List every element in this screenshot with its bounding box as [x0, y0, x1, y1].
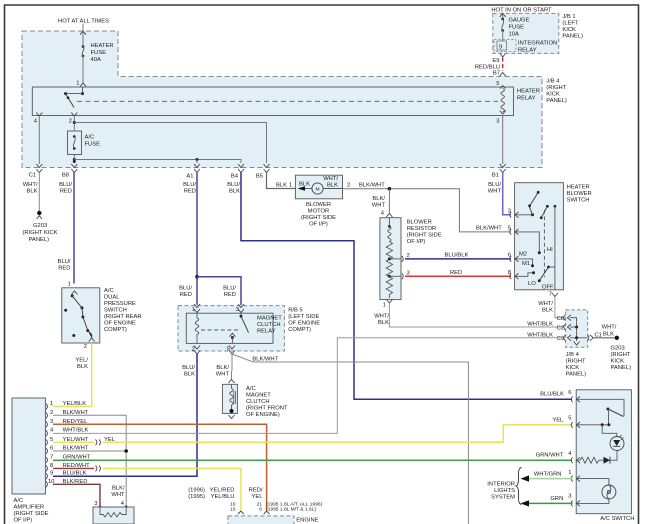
svg-text:A/C SWITCH: A/C SWITCH: [600, 516, 634, 522]
label BLU/BLK under B4: [227, 182, 240, 195]
relay pin 2 connector: [192, 346, 200, 355]
svg-text:BLK: BLK: [77, 364, 88, 370]
svg-text:OF ENGINE: OF ENGINE: [104, 321, 136, 327]
wire BLK/WHT drop to blower resistor pin 4: [388, 189, 390, 213]
svg-text:(RIGHT SIDE: (RIGHT SIDE: [14, 511, 49, 517]
wire BLU/RED B8 to A/C dual pressure switch: [73, 173, 75, 284]
label BLU/RED above pressure switch: [58, 259, 71, 272]
resistor pin 3 branch: [389, 271, 409, 280]
wire relay terminal 4 to C1: [38, 116, 40, 164]
svg-text:RELAY: RELAY: [517, 96, 536, 102]
svg-text:WHT/GRN: WHT/GRN: [534, 472, 562, 478]
label J/B 1 (LEFT KICK PANEL): [562, 14, 583, 40]
svg-text:FUSE: FUSE: [91, 50, 107, 56]
svg-text:3: 3: [94, 501, 97, 507]
label WHT/BLK at C1: [602, 325, 617, 338]
svg-text:HEATER: HEATER: [517, 89, 540, 95]
amplifier pin 4: [46, 428, 88, 436]
svg-text:KICK: KICK: [566, 365, 580, 371]
wire BLU/WHT B1 to blower switch pin 3: [503, 173, 511, 215]
svg-text:YEL/: YEL/: [75, 358, 88, 364]
svg-text:R/B 5: R/B 5: [288, 308, 303, 314]
svg-text:WHT/: WHT/: [374, 314, 389, 320]
svg-text:1: 1: [568, 470, 571, 476]
connector arrow into J/B at HOT AT ALL TIMES: [80, 31, 86, 35]
engine control module box: [228, 516, 294, 524]
svg-text:COMPT): COMPT): [288, 327, 311, 333]
svg-text:LIGHTS: LIGHTS: [494, 488, 515, 494]
blower motor internals (arrow, M circle): [298, 176, 343, 194]
C8 entry: [557, 315, 571, 322]
svg-text:10A: 10A: [509, 32, 519, 38]
blower motor box: [295, 175, 342, 199]
svg-text:1: 1: [289, 183, 292, 189]
amplifier pin 7: [46, 455, 91, 463]
blower switch OFF contact and arm: [538, 266, 555, 291]
wire BLK/WHT relay pin5 down to magnet clutch: [231, 354, 234, 380]
svg-text:(RIGHT: (RIGHT: [546, 85, 566, 91]
amplifier pin 2: [46, 410, 89, 418]
svg-text:BLU/: BLU/: [182, 365, 195, 371]
svg-text:YEL/BLU: YEL/BLU: [211, 494, 235, 500]
svg-text:RED: RED: [450, 270, 462, 276]
relay switch: [229, 313, 248, 343]
svg-text:BLK/: BLK/: [216, 365, 229, 371]
svg-text:BLK/WHT: BLK/WHT: [476, 226, 502, 232]
wire BLU/BLK resistor pin 2 to switch pin 6: [405, 258, 511, 260]
svg-text:RED: RED: [60, 189, 72, 195]
svg-text:40A: 40A: [91, 57, 101, 63]
thermistor box: [93, 507, 134, 524]
A/C switch pin 6 connector: [568, 390, 580, 402]
svg-text:RELAY: RELAY: [518, 48, 537, 54]
wire YEL continues: [103, 425, 573, 442]
svg-text:OF I/P): OF I/P): [14, 518, 33, 524]
svg-text:RED: RED: [184, 189, 196, 195]
label A/C MAGNET CLUTCH (RIGHT FRONT OF ENGINE): [246, 386, 288, 418]
svg-text:OFF: OFF: [542, 285, 554, 291]
svg-text:BLU/: BLU/: [488, 182, 501, 188]
label BLK/WHT above thermistor: [111, 486, 125, 499]
connector B4 at band bottom: [231, 164, 244, 180]
connector B1 at band bottom: [492, 164, 506, 179]
svg-text:BLU/: BLU/: [183, 182, 196, 188]
svg-text:CLUTCH: CLUTCH: [257, 322, 281, 328]
svg-text:(RIGHT SIDE: (RIGHT SIDE: [407, 233, 442, 239]
heater relay coil: [496, 81, 505, 125]
svg-text:WHT: WHT: [488, 189, 502, 195]
label BLU/WHT under B1: [488, 182, 502, 195]
thermistor element: [100, 507, 126, 517]
integration relay (dashed) with pin 9: [494, 40, 557, 54]
svg-text:BLK: BLK: [542, 308, 553, 314]
svg-text:BLOWER: BLOWER: [567, 191, 592, 197]
svg-text:(RIGHT FRONT: (RIGHT FRONT: [246, 406, 288, 412]
relay mech dashed link: [201, 329, 238, 331]
svg-text:OF I/P): OF I/P): [309, 222, 328, 228]
amplifier pin 9: [46, 471, 87, 479]
svg-text:DUAL: DUAL: [104, 295, 120, 301]
connector A1 at band bottom: [186, 164, 200, 180]
wire gauge fuse to integration relay: [502, 31, 504, 42]
svg-text:HEATER: HEATER: [91, 43, 114, 49]
fuse GAUGE FUSE 10A: [501, 18, 529, 38]
svg-text:(RIGHT: (RIGHT: [611, 352, 631, 358]
svg-text:FUSE: FUSE: [509, 25, 525, 31]
svg-text:9: 9: [50, 471, 53, 477]
wire pin3 RED/YEL to ECM: [53, 424, 267, 510]
svg-text:(1995): (1995): [188, 494, 205, 500]
blower switch pin 7 output: [549, 267, 558, 298]
svg-text:BLU/: BLU/: [58, 259, 71, 265]
svg-text:(RIGHT KICK: (RIGHT KICK: [23, 230, 58, 236]
svg-text:HOT IN ON OR START: HOT IN ON OR START: [491, 8, 552, 14]
svg-text:2: 2: [69, 119, 72, 125]
label ENGINE CONTROL: [296, 518, 325, 524]
svg-text:KICK: KICK: [546, 92, 560, 98]
blower switch pin 8 connector: [508, 270, 519, 279]
amplifier pin 8: [46, 463, 90, 471]
svg-text:A/C: A/C: [85, 135, 95, 141]
wire WHT/BLK to ground G203: [592, 337, 615, 339]
svg-text:SYSTEM: SYSTEM: [491, 495, 515, 501]
svg-text:KICK: KICK: [611, 359, 625, 365]
wire BLK from B5 to blower motor pin 1: [267, 173, 296, 189]
svg-text:8: 8: [50, 463, 53, 469]
svg-text:PRESSURE: PRESSURE: [104, 301, 136, 307]
svg-text:J/B 1: J/B 1: [562, 14, 575, 20]
wire pin2 BLK/WHT to thermistor pin 4: [53, 415, 126, 505]
svg-text:B7: B7: [493, 71, 500, 77]
svg-text:WHT/BLK: WHT/BLK: [63, 428, 89, 434]
svg-text:WHT/: WHT/: [23, 182, 38, 188]
inline connector on pin 8 wire: [96, 466, 101, 472]
svg-text:2: 2: [50, 410, 53, 416]
svg-text:8: 8: [508, 270, 511, 276]
svg-text:B8: B8: [62, 173, 69, 179]
svg-text:B4: B4: [231, 174, 239, 180]
blower switch pin 6 connector: [508, 253, 519, 262]
svg-text:YEL/BLK: YEL/BLK: [63, 401, 87, 407]
svg-text:BLU/BLK: BLU/BLK: [540, 392, 564, 398]
svg-text:C8: C8: [557, 316, 564, 322]
svg-text:BLK: BLK: [327, 183, 338, 189]
svg-text:HEATER: HEATER: [567, 185, 590, 191]
svg-text:BLU/: BLU/: [223, 286, 236, 292]
C9 entry: [557, 335, 571, 342]
svg-text:1: 1: [68, 282, 71, 288]
relay terminal 4: [34, 113, 43, 125]
A/C switch pin 5 connector: [568, 416, 580, 428]
wire WHT/BLK pin7 to J/B4 C8: [555, 297, 563, 318]
label A/C DUAL PRESSURE SWITCH (RIGHT REAR OF ENGINE COMPT): [104, 288, 142, 333]
svg-text:SWITCH: SWITCH: [104, 308, 127, 314]
svg-text:PANEL): PANEL): [566, 372, 587, 378]
A/C magnet clutch box: [222, 384, 237, 413]
svg-text:PANEL): PANEL): [29, 237, 50, 243]
wire BLK/WHT from motor to junction and blower switch pin 5: [343, 189, 512, 232]
svg-text:BLK/: BLK/: [112, 486, 125, 492]
connector pin 4 blower resistor: [381, 211, 393, 218]
label RED/YEL at ECM: [249, 488, 264, 501]
svg-text:A1: A1: [186, 174, 193, 180]
wire fuse to relay terminal 1: [82, 56, 84, 83]
svg-text:COMPT): COMPT): [104, 327, 127, 333]
wire pin6 BLK/WHT join: [53, 450, 126, 452]
svg-text:BLK: BLK: [229, 189, 240, 195]
connector pin 1 blower resistor bottom: [383, 300, 393, 309]
J/B 4 connector box (right mid): [566, 310, 588, 347]
A/C switch pin 3 connector: [568, 494, 580, 507]
svg-text:OF I/P): OF I/P): [407, 239, 426, 245]
connector arrow into J/B 1: [500, 13, 506, 17]
svg-text:BLK: BLK: [276, 183, 287, 189]
svg-text:A/C: A/C: [246, 386, 256, 392]
wire BLU/BLK B4 to A/C switch pin 6: [241, 173, 572, 400]
wire terminal 2 down with junction to B5 feed: [73, 116, 75, 131]
svg-text:RELAY: RELAY: [257, 329, 276, 335]
svg-text:WHT/: WHT/: [323, 176, 338, 182]
svg-text:GRN: GRN: [550, 496, 563, 502]
label MAGNET CLUTCH RELAY: [257, 316, 282, 335]
label YEL/RED / YEL/BLU: [210, 488, 235, 501]
connector C1 at band bottom: [29, 164, 43, 179]
svg-text:BLK: BLK: [299, 182, 310, 188]
wire RED resistor pin 3 to switch pin 8: [405, 275, 511, 277]
blower switch HI feed line: [547, 205, 556, 267]
connector B7 into J/B 4: [493, 71, 506, 77]
svg-text:WHT/: WHT/: [602, 325, 617, 331]
svg-text:5: 5: [50, 437, 53, 443]
svg-text:10: 10: [230, 507, 236, 513]
label WHT/BLK under C1: [23, 182, 38, 195]
relay terminal 2: [69, 113, 78, 125]
blower switch pin 5 connector: [508, 226, 519, 235]
svg-text:(1996): (1996): [188, 488, 205, 494]
ECM pin labels 21/6: [257, 502, 263, 513]
A/C switch internal: resistor and diode: [578, 457, 617, 464]
svg-text:C9: C9: [557, 336, 564, 342]
blower resistor box: [380, 218, 401, 300]
wire BLU/RED branch to relay pin 3: [197, 277, 241, 305]
svg-text:GAUGE: GAUGE: [509, 18, 530, 24]
A/C switch internal: pin5 wire, LED branch: [577, 423, 624, 460]
svg-text:M1: M1: [522, 261, 530, 267]
label HEATER BLOWER SWITCH: [567, 185, 592, 204]
svg-text:MOTOR: MOTOR: [308, 209, 329, 215]
J/B 1 box (left kick panel): [493, 13, 559, 53]
magnet clutch coil: [229, 384, 236, 418]
amplifier pin 10: [46, 479, 87, 487]
svg-text:RED: RED: [224, 292, 236, 298]
svg-text:SWITCH: SWITCH: [567, 198, 590, 204]
connector terminal 1 on relay box: [76, 81, 86, 87]
svg-text:RED/: RED/: [249, 488, 263, 494]
R/B 5 box (magnet clutch relay): [178, 306, 284, 351]
ground G203: [23, 211, 58, 243]
svg-text:PANEL): PANEL): [562, 34, 583, 40]
svg-text:1: 1: [50, 401, 53, 407]
svg-text:9: 9: [499, 45, 502, 51]
svg-text:2: 2: [347, 183, 350, 189]
thermistor pin 4 connector: [121, 501, 129, 509]
A/C switch internal: pin3 to lamp: [577, 499, 609, 503]
connector B5 at band bottom: [256, 164, 270, 180]
label INTERIOR LIGHTS SYSTEM with brace: [487, 482, 515, 501]
relay pin 1 connector: [192, 304, 200, 313]
svg-text:3: 3: [50, 419, 53, 425]
wire from HOT IN ON OR START to gauge fuse: [502, 13, 504, 19]
pressure switch internals: [64, 291, 95, 342]
heater blower switch box: [515, 183, 564, 290]
wire WHT/BLK C1 to ground: [38, 173, 40, 212]
wire YEL/BLK pressure switch to amplifier pin 1: [53, 343, 92, 407]
brace for interior lights: [516, 468, 522, 505]
svg-text:INTEGRATION: INTEGRATION: [518, 41, 557, 47]
svg-text:GRN/WHT: GRN/WHT: [536, 453, 564, 459]
svg-text:J/B 4: J/B 4: [566, 352, 580, 358]
svg-text:YEL: YEL: [252, 494, 264, 500]
label (1996)/(1995): [188, 488, 205, 501]
svg-text:M2: M2: [519, 252, 527, 258]
svg-text:OF ENGINE: OF ENGINE: [288, 321, 320, 327]
blower switch rotary contacts top: [516, 191, 549, 219]
wire relay pin 3 to B1: [502, 116, 504, 165]
wire GRN to interior lights (arrow): [521, 500, 573, 506]
blower switch pin 3 connector: [508, 209, 519, 218]
connector B8 at band bottom: [62, 160, 77, 179]
wire RED/BLU from E9 to B7: [502, 58, 504, 72]
svg-text:3: 3: [496, 119, 499, 125]
wire to B5 (BLK): [74, 123, 266, 164]
label BLU/RED above relay pin 1: [179, 286, 192, 299]
inline connector on pin 5 wire: [96, 437, 116, 446]
svg-text:WHT/BLK: WHT/BLK: [527, 322, 553, 328]
svg-text:BLOWER: BLOWER: [407, 220, 432, 226]
relay coil: [195, 313, 199, 343]
svg-text:ENGINE: ENGINE: [296, 518, 318, 524]
svg-text:E9: E9: [492, 58, 499, 64]
label WHT/BLK at pin 7: [538, 301, 553, 314]
node junction on BLK/WHT: [388, 187, 392, 191]
svg-text:BLK/WHT: BLK/WHT: [252, 357, 278, 363]
connector into A/C magnet clutch: [229, 380, 235, 384]
thermistor pin 3 connector: [94, 501, 103, 509]
wire WHT/GRN to interior lights (arrow): [521, 475, 573, 481]
label BLOWER MOTOR (RIGHT SIDE OF I/P): [301, 202, 336, 228]
wire pin8 to LO contact: [516, 271, 537, 287]
svg-text:3: 3: [568, 494, 571, 500]
wire BLU/BLK relay pin2 to amplifier pin 9: [53, 354, 197, 476]
label J/B 4 (RIGHT KICK PANEL) below connector box: [566, 352, 587, 378]
svg-text:KICK: KICK: [562, 27, 576, 33]
svg-text:G203: G203: [611, 346, 625, 352]
label HEATER RELAY: [517, 89, 540, 102]
svg-text:(1995 1.8L M/T & 1.6L): (1995 1.8L M/T & 1.6L): [266, 507, 316, 513]
node on A1 wire: [195, 275, 199, 279]
node pins 2/6 junction: [124, 449, 128, 453]
amplifier pin 6: [46, 446, 89, 454]
svg-text:BLOWER: BLOWER: [306, 202, 331, 208]
svg-text:(RIGHT: (RIGHT: [566, 359, 586, 365]
amplifier pin 3: [46, 419, 88, 427]
wire BLU/RED A1 down to junction node: [196, 173, 198, 306]
svg-text:5: 5: [568, 416, 571, 422]
J/B4 internal bus: [570, 318, 588, 345]
amplifier pin 1: [46, 401, 86, 409]
svg-text:YEL: YEL: [552, 418, 564, 424]
svg-text:5: 5: [508, 226, 511, 232]
svg-text:2: 2: [407, 253, 410, 259]
svg-text:YEL/RED: YEL/RED: [210, 488, 235, 494]
svg-text:OF ENGINE): OF ENGINE): [246, 412, 280, 418]
A/C switch pin 4 connector: [568, 451, 580, 463]
ECM pin labels 10/10: [230, 502, 236, 513]
wire from HOT AT ALL TIMES to heater fuse: [82, 24, 84, 46]
svg-text:6: 6: [259, 507, 262, 513]
wire pin8 RED/WHT to inline connector: [53, 467, 94, 469]
blower switch ganged dashed link: [543, 210, 545, 278]
C2 entry: [557, 324, 571, 331]
wire pin5 YEL/WHT then YEL to A/C switch pin 5: [53, 441, 94, 443]
svg-text:LO: LO: [528, 281, 536, 287]
svg-text:1: 1: [383, 303, 386, 309]
svg-text:3: 3: [508, 209, 511, 215]
svg-text:B5: B5: [256, 174, 263, 180]
wire YEL/RED (YEL/BLU) continues to ECM: [103, 468, 241, 510]
svg-text:BLK/: BLK/: [372, 196, 385, 202]
svg-text:6: 6: [50, 446, 53, 452]
svg-text:1: 1: [76, 81, 79, 87]
ECM entry connectors: [238, 511, 270, 514]
wire A/C fuse output junction: [73, 155, 75, 164]
svg-text:(LEFT: (LEFT: [562, 21, 579, 27]
magnet clutch relay inner box: [186, 313, 273, 343]
A/C switch pin 1 connector: [568, 470, 580, 482]
svg-text:A/C: A/C: [14, 498, 24, 504]
svg-text:RESISTOR: RESISTOR: [407, 226, 437, 232]
svg-text:BLU/BLK: BLU/BLK: [445, 253, 469, 259]
svg-text:J/B 4: J/B 4: [546, 79, 560, 85]
svg-text:WHT: WHT: [216, 372, 230, 378]
svg-text:C1: C1: [29, 173, 36, 179]
ground G203 (right): [611, 336, 632, 371]
svg-text:C2: C2: [557, 325, 564, 331]
label BLU/RED under A1: [183, 182, 196, 195]
A/C switch box: [576, 390, 631, 514]
svg-text:A/C: A/C: [104, 288, 114, 294]
blower resistor element: [386, 218, 392, 298]
svg-text:BLU/: BLU/: [59, 182, 72, 188]
A/C switch internal: pin6 feed and blade: [577, 399, 624, 425]
svg-text:5: 5: [496, 81, 499, 87]
svg-text:RED: RED: [180, 292, 192, 298]
wire pin4 WHT/BLK to J/B4 C9: [53, 338, 563, 434]
fuse HEATER FUSE 40A: [82, 43, 114, 63]
svg-text:BLU/BLK: BLU/BLK: [63, 471, 87, 477]
wire WHT/BLK resistor pin1 to J/B4 C2: [389, 304, 563, 328]
label BLK/WHT at resistor pin 4: [372, 196, 386, 209]
svg-text:CLUTCH: CLUTCH: [246, 399, 270, 405]
svg-text:2: 2: [84, 344, 87, 350]
svg-text:B1: B1: [492, 173, 499, 179]
wire BLK/WHT relay pin5 diagonal to right: [232, 354, 468, 524]
svg-text:RED: RED: [58, 266, 70, 272]
svg-text:BLK/WHT: BLK/WHT: [359, 183, 385, 189]
label BLU/BLK under relay pin 2: [182, 365, 195, 378]
svg-text:MAGNET: MAGNET: [246, 393, 271, 399]
svg-text:WHT/: WHT/: [538, 301, 553, 307]
